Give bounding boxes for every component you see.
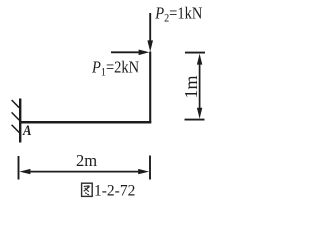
figure caption character 图 (drawn): [82, 183, 93, 196]
svg-text:P2=1kN: P2=1kN: [154, 4, 202, 24]
dimension 2m left arrowhead: [19, 169, 30, 174]
force P2 arrow shaft: [149, 13, 151, 42]
svg-text:1-2-72: 1-2-72: [94, 183, 135, 200]
dimension 1m dimension line: [199, 60, 201, 112]
dimension 2m dimension line: [26, 171, 143, 173]
dimension 2m right extension tick: [149, 156, 151, 180]
label P1=2kN: [91, 59, 139, 79]
svg-text:A: A: [22, 123, 31, 139]
svg-text:2m: 2m: [76, 151, 97, 170]
support label A: [22, 123, 31, 139]
dimension 1m top extension tick: [185, 52, 205, 54]
dimension 2m right arrowhead: [138, 169, 149, 174]
support hatch 1: [12, 100, 20, 108]
dimension 1m top arrowhead: [197, 54, 202, 65]
dimension 2m left extension tick: [18, 156, 20, 180]
support hatch 2: [12, 112, 20, 120]
fixed support wall at A: [19, 99, 21, 143]
support hatch 3: [12, 125, 20, 133]
force P1 arrow shaft: [111, 51, 141, 53]
dimension 1m bottom extension tick: [185, 119, 205, 121]
column (vertical member): [149, 52, 151, 123]
svg-text:P1=2kN: P1=2kN: [91, 59, 139, 79]
dimension 1m bottom arrowhead: [197, 108, 202, 119]
force P1 arrowhead: [139, 50, 150, 56]
label P2=1kN: [154, 4, 202, 24]
svg-text:1m: 1m: [181, 75, 201, 98]
beam (horizontal member from A to corner): [19, 121, 151, 124]
force P2 arrowhead: [147, 40, 153, 51]
